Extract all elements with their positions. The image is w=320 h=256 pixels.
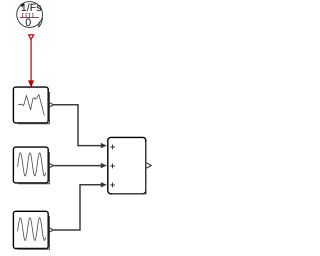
B3 sine waveform (18, 218, 46, 241)
label 0 (26, 18, 31, 26)
wire W2 from B2 to sum input 2 (53, 163, 106, 168)
block B2 sine source (13, 147, 49, 184)
sum plus input 3 (110, 183, 115, 188)
red stems (23, 15, 33, 17)
B2 output port (49, 163, 54, 168)
red annotation arrow from clock icon to block B1 (28, 35, 34, 88)
sum block (108, 137, 146, 194)
label 1/Fs (22, 3, 42, 11)
B1 waveform (18, 95, 44, 116)
block B1 random source (13, 87, 49, 124)
sum plus input 2 (110, 164, 115, 169)
wire W1 from B1 to sum input 1 (53, 105, 106, 149)
B1 output port (49, 102, 54, 107)
sum output port (147, 163, 152, 168)
B2 sine waveform (18, 153, 46, 176)
sum plus input 1 (110, 145, 115, 150)
block B3 sine source (13, 211, 49, 249)
red stem dots (22, 13, 34, 14)
stem plot axis (20, 16, 39, 18)
clock icon circle (1/Fs rate indicator) (17, 2, 43, 28)
B3 output port (49, 228, 54, 233)
wire W3 from B3 to sum input 3 (53, 182, 106, 230)
